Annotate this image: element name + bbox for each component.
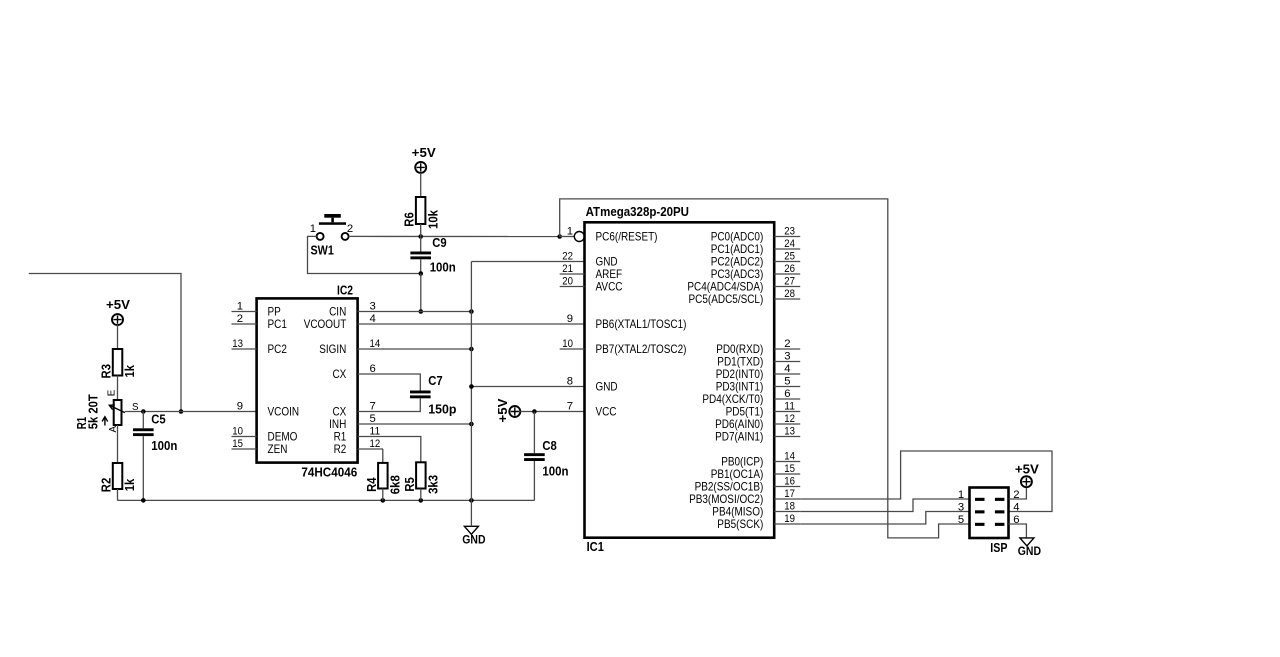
capacitor C5 100n (133, 412, 177, 453)
junction INH / GND rail (469, 422, 474, 427)
svg-text:12: 12 (370, 438, 381, 450)
wire R6 to reset net (420, 224, 422, 237)
svg-text:+5V: +5V (496, 398, 510, 423)
IC1 pin 13 PD7(AIN1) (774, 436, 800, 438)
svg-text:PD7(AIN1): PD7(AIN1) (715, 430, 763, 444)
svg-text:ATmega328p-20PU: ATmega328p-20PU (586, 205, 689, 219)
connector ISP 6-pin header (970, 488, 1009, 555)
wire GND column (470, 262, 472, 501)
wire INH to GND rail (383, 423, 471, 425)
svg-text:PB6(XTAL1/TOSC1): PB6(XTAL1/TOSC1) (596, 317, 687, 331)
svg-text:R2: R2 (334, 442, 347, 456)
IC2 pin 13 PC2 (232, 348, 257, 350)
svg-text:E: E (106, 389, 117, 396)
resistor R2 1k (100, 463, 138, 492)
svg-text:6k8: 6k8 (388, 475, 402, 494)
svg-text:10k: 10k (426, 210, 440, 229)
svg-text:100n: 100n (542, 465, 568, 479)
wire GND column to IC1 pin22 (471, 261, 584, 263)
IC2 pin 5 INH (358, 423, 383, 425)
IC2 pin 14 SIGIN (358, 348, 383, 350)
IC IC1 ATmega328p-20PU (585, 205, 775, 554)
svg-text:1: 1 (237, 300, 243, 312)
svg-text:C8: C8 (542, 439, 556, 453)
junction C9 / SW1 (419, 271, 424, 276)
IC1 pin 3 PD1(TXD) (774, 361, 800, 363)
svg-text:VCOOUT: VCOOUT (304, 317, 347, 331)
svg-text:25: 25 (784, 250, 795, 262)
IC2 pin 3 CIN (358, 311, 383, 313)
svg-text:11: 11 (784, 400, 795, 412)
wire MOSI pin17 to ISP pin4 (800, 451, 1052, 512)
ISP pins 1 and 2 (975, 498, 985, 501)
capacitor C9 100n (410, 236, 455, 274)
wire to C8 top (533, 412, 535, 454)
IC1 pin 6 PD4(XCK/T0) (774, 398, 800, 400)
svg-text:14: 14 (370, 338, 381, 350)
wire +5V to IC1 VCC pin7 (520, 411, 584, 413)
wire R1 to R2 (117, 425, 119, 463)
junction C9 branch / CIN wire (419, 309, 424, 314)
svg-text:2: 2 (784, 338, 790, 350)
svg-text:100n: 100n (430, 261, 456, 275)
svg-text:9: 9 (567, 313, 573, 325)
svg-text:10: 10 (232, 425, 243, 437)
svg-text:SIGIN: SIGIN (319, 342, 346, 356)
junction CIN / GND rail (469, 309, 474, 314)
svg-text:20: 20 (562, 275, 573, 287)
wire SCK pin19 to ISP pin3 (800, 512, 969, 525)
junction wiper / C5 (141, 409, 146, 414)
svg-text:GND: GND (462, 532, 485, 546)
svg-text:R4: R4 (365, 477, 379, 491)
svg-text:ZEN: ZEN (268, 442, 288, 456)
svg-text:2: 2 (347, 223, 353, 235)
IC1 pin 4 PD2(INT0) (774, 373, 800, 375)
capacitor C7 150p (410, 374, 457, 417)
junction R4 / rail (381, 498, 386, 503)
svg-text:1: 1 (567, 225, 573, 237)
IC2 pin 7 CX (358, 411, 383, 413)
IC2 pin 12 R2 (358, 448, 383, 450)
wire SW1 pin2 / R6 to IC1 pin1 (349, 235, 560, 237)
wire ISP pin6 to ground (1009, 524, 1027, 538)
svg-text:5: 5 (784, 375, 790, 387)
resistor R4 6k8 (365, 463, 403, 494)
wire R3 to R1 (117, 376, 119, 401)
IC2 pin 2 PC1 (232, 323, 257, 325)
IC1 pin 27 PC4(ADC4/SDA) (774, 286, 800, 288)
IC2 pin 11 R1 (358, 436, 383, 438)
svg-text:74HC4046: 74HC4046 (301, 465, 357, 479)
svg-text:27: 27 (784, 275, 795, 287)
wire wiper S to IC2 VCOIN (125, 411, 257, 413)
wire C7 to CX pin7 (383, 398, 420, 411)
svg-text:8: 8 (567, 375, 573, 387)
svg-text:R5: R5 (403, 477, 417, 491)
svg-text:6: 6 (370, 363, 376, 375)
power +5V (ISP) (1015, 463, 1040, 488)
svg-text:23: 23 (784, 225, 795, 237)
junction C5 / rail (141, 498, 146, 503)
IC1 pin 19 PB5(SCK) (774, 523, 800, 525)
svg-text:11: 11 (370, 425, 381, 437)
wire R2 to ground rail (117, 489, 119, 500)
wire R4 to rail (382, 489, 384, 501)
ground (462, 526, 485, 546)
wire VCOOUT to IC1 PB6 (383, 323, 585, 325)
wire SW1 pin1 to C9 bottom (308, 236, 421, 273)
trimmer potentiometer R1 5k 20T (75, 389, 139, 432)
wire C8 bottom to rail (533, 461, 535, 500)
junction SIGIN / GND rail (469, 347, 474, 352)
svg-text:21: 21 (562, 263, 573, 275)
svg-text:12: 12 (784, 413, 795, 425)
svg-text:GND: GND (596, 380, 618, 394)
switch SW1 push button (310, 214, 353, 257)
svg-text:PC2: PC2 (268, 342, 287, 356)
IC1 pin 28 PC5(ADC5/SCL) (774, 298, 800, 300)
svg-text:VCOIN: VCOIN (268, 405, 300, 419)
svg-text:C7: C7 (428, 374, 442, 388)
svg-text:4: 4 (784, 363, 790, 375)
wire reset net to ISP pin5 (560, 199, 970, 538)
power +5V (left) (106, 298, 131, 325)
svg-text:IC2: IC2 (337, 283, 353, 298)
svg-text:6: 6 (784, 388, 790, 400)
IC1 pin 18 PB4(MISO) (774, 511, 800, 513)
svg-text:C9: C9 (432, 236, 446, 250)
ground (ISP) (1018, 538, 1041, 558)
IC1 pin 20 AVCC (560, 286, 585, 288)
IC IC2 74HC4046 (257, 283, 358, 480)
svg-text:10: 10 (562, 338, 573, 350)
svg-text:13: 13 (784, 425, 795, 437)
wire C5 bottom to ground rail (142, 436, 144, 500)
IC1 pin 12 PD6(AIN0) (774, 423, 800, 425)
svg-text:R3: R3 (100, 364, 114, 378)
svg-text:VCC: VCC (596, 405, 617, 419)
IC1 pin 10 PB7(XTAL2/TOSC2) (560, 348, 585, 350)
IC1 pin 11 PD5(T1) (774, 411, 800, 413)
svg-text:15: 15 (784, 463, 795, 475)
wire SIGIN to GND rail (383, 348, 471, 350)
svg-text:PB7(XTAL2/TOSC2): PB7(XTAL2/TOSC2) (596, 342, 687, 356)
IC2 pin 10 DEMO (232, 436, 257, 438)
IC1 pin 1 PC6(/RESET) (560, 236, 575, 238)
wire R5 to rail (420, 489, 422, 501)
svg-text:24: 24 (784, 238, 795, 250)
svg-text:9: 9 (237, 400, 243, 412)
wire MISO pin18 to ISP pin1 (800, 499, 969, 512)
wire +5V to R3 (117, 325, 119, 349)
junction reset net T (557, 234, 562, 239)
wire ground rail bottom (118, 499, 535, 501)
svg-text:2: 2 (237, 313, 243, 325)
IC1 pin 17 PB3(MOSI/OC2) (774, 498, 800, 500)
svg-text:13: 13 (232, 338, 243, 350)
wire to C5 top (142, 412, 144, 429)
svg-text:18: 18 (784, 500, 795, 512)
junction GND column / rail (469, 498, 474, 503)
junction GND pin8 (469, 384, 474, 389)
power +5V (top) (412, 146, 437, 173)
svg-text:7: 7 (567, 400, 573, 412)
svg-text:16: 16 (784, 475, 795, 487)
svg-text:IC1: IC1 (587, 539, 604, 554)
junction wiper wire / top-left wire (179, 409, 184, 414)
svg-text:22: 22 (562, 250, 573, 262)
svg-text:+5V: +5V (106, 298, 131, 312)
svg-text:1: 1 (958, 489, 964, 501)
capacitor C8 100n (524, 439, 568, 479)
svg-text:15: 15 (232, 438, 243, 450)
junction VCC / C8 (532, 409, 537, 414)
svg-text:PC5(ADC5/SCL): PC5(ADC5/SCL) (689, 292, 764, 306)
IC1 pin 26 PC3(ADC3) (774, 273, 800, 275)
svg-text:ISP: ISP (990, 540, 1007, 555)
IC2 pin 1 PP (232, 311, 257, 313)
svg-text:150p: 150p (428, 403, 457, 417)
IC1 pin 15 PB1(OC1A) (774, 473, 800, 475)
svg-text:AVCC: AVCC (596, 280, 623, 294)
svg-text:100n: 100n (151, 439, 177, 453)
svg-text:1k: 1k (123, 365, 137, 378)
ISP pins 5 and 6 (975, 523, 985, 526)
svg-text:+5V: +5V (1015, 463, 1040, 477)
IC1 pin 23 PC0(ADC0) (774, 236, 800, 238)
IC1 pin 24 PC1(ADC1) (774, 248, 800, 250)
svg-text:3: 3 (370, 300, 376, 312)
wire C9 to SW1 return (420, 259, 422, 273)
resistor R5 3k3 (403, 462, 441, 494)
junction R6 / C9 / reset net (418, 234, 423, 239)
wire ISP pin2 to +5V (1009, 487, 1027, 499)
wire C9 ground branch down to CIN net (420, 274, 422, 312)
IC2 pin 15 ZEN (232, 448, 257, 450)
svg-text:5: 5 (958, 514, 964, 526)
svg-text:14: 14 (784, 450, 795, 462)
svg-text:PB5(SCK): PB5(SCK) (717, 517, 763, 531)
wire +5V to R6 (420, 173, 422, 197)
svg-text:PC6(/RESET): PC6(/RESET) (596, 230, 658, 244)
junction R5 / rail (419, 498, 424, 503)
IC2 pin 6 CX (358, 373, 383, 375)
wire rail to ground symbol (470, 500, 472, 526)
svg-text:4: 4 (370, 313, 376, 325)
wire net VCOIN from off-page (29, 274, 181, 412)
svg-text:28: 28 (784, 288, 795, 300)
svg-text:3: 3 (784, 350, 790, 362)
svg-text:1k: 1k (123, 479, 137, 492)
svg-text:1: 1 (310, 223, 316, 235)
IC1 pin 5 PD3(INT1) (774, 386, 800, 388)
resistor R6 10k (403, 197, 441, 229)
wire R2 pin12 to R4 (382, 449, 384, 463)
IC1 pin 21 AREF (560, 273, 585, 275)
wire CX pin6 to C7 (383, 374, 420, 391)
svg-text:7: 7 (370, 400, 376, 412)
wire GND column to IC1 pin8 (471, 386, 584, 388)
IC1 pin 2 PD0(RXD) (774, 348, 800, 350)
IC1 pin 16 PB2(SS/OC1B) (774, 486, 800, 488)
IC1 pin 25 PC2(ADC2) (774, 261, 800, 263)
svg-text:3: 3 (958, 502, 964, 514)
svg-text:+5V: +5V (412, 146, 437, 160)
svg-text:SW1: SW1 (311, 243, 334, 257)
svg-text:PC1: PC1 (268, 317, 287, 331)
wire reset net to C9 (420, 237, 422, 252)
wire R1 pin11 to R5 (383, 437, 421, 463)
svg-text:R2: R2 (100, 478, 114, 492)
svg-text:5k 20T: 5k 20T (86, 394, 100, 429)
svg-text:GND: GND (1018, 544, 1041, 558)
svg-text:3k3: 3k3 (426, 475, 440, 494)
wire CIN to GND rail (383, 311, 471, 313)
ISP pins 3 and 4 (975, 510, 985, 513)
resistor R3 1k (100, 349, 138, 378)
svg-text:4: 4 (1013, 502, 1019, 514)
power +5V (VCC) (496, 398, 520, 423)
svg-text:5: 5 (370, 413, 376, 425)
IC2 pin 4 VCOOUT (358, 323, 383, 325)
IC1 pin 14 PB0(ICP) (774, 461, 800, 463)
svg-text:CX: CX (333, 367, 347, 381)
svg-text:19: 19 (784, 513, 795, 525)
svg-text:26: 26 (784, 263, 795, 275)
svg-text:R6: R6 (403, 212, 417, 226)
svg-text:17: 17 (784, 488, 795, 500)
svg-text:C5: C5 (151, 412, 165, 426)
